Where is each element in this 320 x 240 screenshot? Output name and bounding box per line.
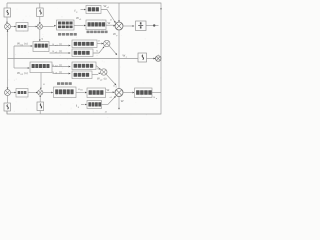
svg-text:(t): (t) <box>59 70 62 74</box>
svg-text:B1: B1 <box>80 90 82 92</box>
svg-text:d: d <box>116 86 117 88</box>
svg-text:W: W <box>107 88 110 92</box>
svg-text:(t): (t) <box>59 63 62 67</box>
svg-text:(s): (s) <box>24 71 27 75</box>
svg-text:p2: p2 <box>100 79 102 81</box>
svg-text:(t): (t) <box>59 42 62 46</box>
svg-text:W: W <box>108 21 111 25</box>
svg-text:(t): (t) <box>59 49 62 53</box>
svg-text:W: W <box>121 99 124 103</box>
svg-text:(s): (s) <box>104 78 107 81</box>
svg-text:(s): (s) <box>24 42 27 46</box>
